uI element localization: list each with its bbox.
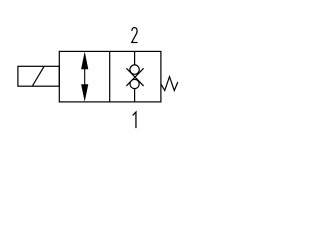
return spring <box>161 77 178 91</box>
valve body envelope (2 positions) <box>59 51 161 102</box>
position divider line <box>109 51 111 102</box>
port 1 label <box>133 112 136 128</box>
port 2 label <box>132 28 138 43</box>
check valve poppet: lower ball <box>130 79 139 88</box>
wire: poppet seat to port 1 <box>134 89 136 102</box>
check valve poppet: seat X <box>126 68 143 86</box>
solenoid coil Y1 <box>18 66 59 86</box>
flow path double arrow (energized position) <box>81 52 88 102</box>
wire: port 2 to poppet seat <box>134 51 136 65</box>
check valve poppet: upper ball <box>130 65 139 74</box>
